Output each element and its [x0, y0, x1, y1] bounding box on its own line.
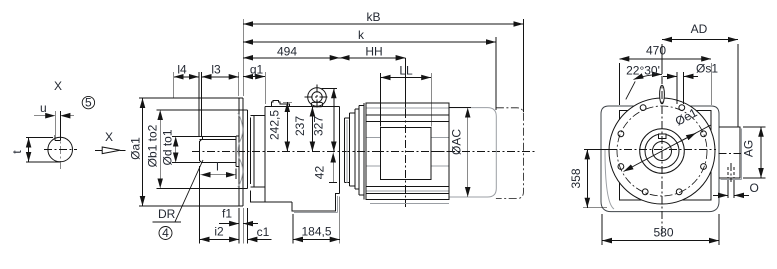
eyebolt base: [311, 102, 322, 106]
gear housing front face: [264, 107, 266, 203]
svg-text:42: 42: [313, 166, 327, 180]
motor underside shadow: [370, 202, 449, 204]
dim 42 tick: [329, 182, 337, 184]
terminal box: [381, 128, 432, 180]
motor vertical centerline: [405, 110, 407, 207]
svg-text:184,5: 184,5: [301, 225, 331, 239]
view direction arrow head: [102, 147, 120, 154]
dim AG ext lines: [743, 126, 766, 128]
svg-text:HH: HH: [365, 44, 382, 58]
phantom brake extension: [496, 108, 524, 199]
shaft body: [200, 139, 236, 162]
svg-text:l4: l4: [177, 63, 187, 77]
adapter ring 1: [345, 118, 350, 183]
svg-text:Øs1: Øs1: [696, 62, 718, 76]
dim AD: [662, 39, 738, 41]
f1 dim left tail: [219, 223, 239, 225]
dim l4: [174, 76, 199, 78]
dim l ext line right: [235, 169, 237, 180]
svg-text:Øa1: Øa1: [129, 137, 143, 160]
dim Ob1to2 line: [159, 110, 161, 188]
svg-text:f1: f1: [222, 207, 232, 221]
bolt circle centerline: [617, 106, 707, 196]
dim 358: [586, 149, 588, 207]
flange plate: [239, 98, 243, 206]
note circle 5: [82, 96, 94, 108]
dimension t extension lines: [26, 137, 53, 139]
svg-text:c1: c1: [257, 225, 270, 239]
dim 494: [243, 57, 340, 59]
view direction arrow tail: [95, 149, 102, 151]
sump shadow: [294, 196, 337, 212]
dim LL: [381, 77, 432, 79]
gear housing top: [265, 106, 340, 108]
top boss with vent plug: [272, 100, 290, 106]
oil plug boss right: [719, 127, 740, 178]
svg-text:k: k: [358, 28, 365, 42]
shaft key to1: [202, 137, 235, 140]
dim kB: [243, 23, 523, 25]
main centerline: [192, 151, 537, 153]
dim Oe1 line: [624, 125, 711, 171]
dim Os1 tails: [663, 75, 677, 77]
adapter shadow: [346, 120, 348, 183]
dim 580: [602, 240, 719, 242]
q1 right ext line: [264, 72, 266, 104]
dim k: [243, 41, 496, 43]
svg-text:327: 327: [312, 116, 326, 136]
dim OAC: [467, 108, 469, 197]
dim l: [201, 174, 236, 176]
centerline through terminal box: [376, 151, 453, 153]
dimension u line right tail: [60, 115, 74, 117]
svg-text:580: 580: [653, 226, 673, 240]
sump block: [292, 193, 340, 211]
dim O ext lines: [727, 180, 729, 198]
shaft bore: [653, 142, 672, 161]
svg-text:t: t: [10, 150, 24, 154]
housing outer silhouette: [601, 106, 719, 212]
svg-text:494: 494: [277, 44, 297, 58]
plug hole centerline: [730, 163, 732, 182]
dim Oa1 line: [142, 98, 144, 206]
svg-text:l3: l3: [211, 63, 221, 77]
dim AD ext: [737, 44, 739, 127]
motor fins: [366, 115, 449, 194]
HH ext line (motor centre) solid top part: [405, 58, 407, 110]
dim c1 tail: [247, 238, 271, 240]
dim 184,5 ext lines: [292, 214, 294, 244]
centerlines of section: [44, 131, 77, 169]
dim 470: [619, 58, 711, 60]
svg-text:DR: DR: [158, 207, 176, 221]
dim Od to1 ext lines: [172, 136, 202, 138]
flange outer circle: [609, 98, 715, 204]
svg-text:X: X: [54, 79, 62, 93]
seal carrier top/bottom: [251, 116, 266, 188]
eyebolt ring: [308, 88, 327, 107]
DR leader: [175, 160, 203, 222]
svg-text:AG: AG: [742, 140, 756, 157]
cowl joint line: [448, 103, 450, 200]
k ext line right: [495, 37, 497, 110]
seal bell curve: [238, 113, 243, 187]
dim 22deg30 arc: [634, 74, 663, 79]
adapter ring 3: [355, 109, 359, 189]
seal carrier lines: [250, 116, 254, 188]
dim HH: [340, 57, 406, 59]
svg-text:4: 4: [162, 226, 169, 240]
dim LL ext lines: [380, 73, 382, 127]
gear housing rear face: [339, 107, 341, 194]
dim Ob1to2 ext lines: [157, 109, 246, 111]
bore keyway: [659, 134, 666, 139]
flange ext lines down: [238, 208, 240, 244]
adapter ring 5: [363, 103, 365, 200]
svg-text:i2: i2: [214, 225, 224, 239]
dim 237: [311, 107, 313, 152]
kB ext line left: [242, 19, 244, 96]
eyebolt centerlines: [305, 85, 330, 111]
svg-text:ØAC: ØAC: [450, 129, 464, 155]
dim i2: [200, 238, 240, 240]
dim Os1 ext lines: [676, 72, 678, 104]
adapter ring 4: [359, 106, 364, 196]
keyway extension lines: [54, 111, 56, 141]
hub circle: [645, 134, 679, 168]
dim 327: [333, 88, 335, 151]
svg-text:q1: q1: [250, 63, 264, 77]
dim Od to1 line: [175, 137, 177, 163]
svg-text:Ød to1: Ød to1: [161, 129, 175, 165]
eyebolt slot top: [660, 85, 665, 104]
stator core gray lines: [366, 108, 449, 191]
dim 327 ext: [322, 87, 338, 89]
l3 ext pair lines: [198, 72, 200, 136]
shaft section circle: [48, 137, 73, 162]
svg-text:kB: kB: [366, 10, 380, 24]
DR underline: [153, 221, 182, 223]
svg-text:X: X: [105, 130, 113, 144]
svg-text:AD: AD: [691, 22, 708, 36]
dim 242,5 ext: [283, 101, 292, 103]
dim 470 ext lines: [618, 63, 620, 105]
housing inner face plate: [619, 111, 711, 201]
dim 22deg30 radial line: [626, 81, 635, 99]
dim q1: [243, 76, 265, 78]
svg-text:LL: LL: [399, 63, 413, 77]
i2 left ext line: [199, 166, 201, 244]
adapter ring 2: [350, 113, 355, 186]
fan cowl gray outline: [449, 108, 496, 197]
shaft shoulder: [236, 136, 239, 167]
dim 184,5: [293, 238, 340, 240]
dimension t line: [28, 138, 30, 162]
flange spigot b1: [243, 110, 247, 188]
f1 dim right tail: [243, 223, 258, 225]
svg-text:470: 470: [646, 44, 666, 58]
dim O tails: [713, 194, 728, 196]
dim 242,5: [286, 102, 288, 151]
motor body outline: [366, 103, 449, 200]
view centerlines: [609, 76, 744, 237]
dim Oa1 ext lines: [139, 97, 241, 99]
l3 right ext: [238, 72, 240, 96]
svg-text:l: l: [216, 160, 219, 174]
spigot circle: [640, 129, 685, 174]
housing shadow left: [605, 150, 614, 209]
svg-text:237: 237: [293, 116, 307, 136]
view direction arrow tip line: [120, 149, 125, 151]
housing bottom front block: [251, 191, 292, 203]
svg-text:Øb1 to2: Øb1 to2: [146, 124, 160, 167]
l4 left ext line: [173, 72, 175, 98]
svg-text:O: O: [750, 181, 759, 195]
bolt holes: [618, 105, 706, 195]
svg-text:22°30': 22°30': [626, 64, 660, 78]
svg-text:242,5: 242,5: [268, 110, 282, 140]
dim 358 ext lines: [584, 148, 609, 150]
boss shadow: [721, 129, 742, 180]
kB ext line right: [522, 19, 524, 112]
plug hole hidden lines: [728, 167, 734, 178]
svg-text:358: 358: [569, 168, 583, 188]
keyway notch: [55, 135, 60, 141]
dim 42: [332, 153, 334, 183]
dimension u line left tail: [34, 115, 55, 117]
cowl top black segment: [449, 107, 471, 109]
dim l3: [202, 76, 239, 78]
dim AG: [760, 127, 762, 178]
note circle 4: [159, 227, 172, 240]
svg-text:5: 5: [85, 95, 92, 109]
dim 580 ext lines: [601, 214, 603, 245]
svg-text:u: u: [40, 101, 47, 115]
